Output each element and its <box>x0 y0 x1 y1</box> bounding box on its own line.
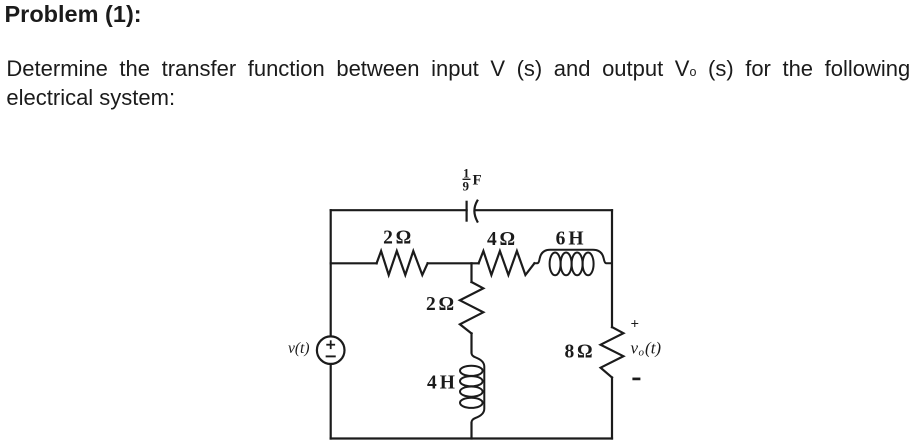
svg-text:4Ω: 4Ω <box>487 229 515 250</box>
wire: top side, capacitor to top-right corner <box>475 209 612 211</box>
wire: bottom side, bottom-left to bottom-right corner <box>331 437 612 439</box>
label: capacitor value 1/9 F <box>463 166 482 194</box>
wire: middle rail, left wire to resistor R1 <box>331 262 377 264</box>
resistor R1 2 ohm (horizontal zigzag) <box>377 251 428 275</box>
capacitor C1 (1/9 F): flat left plate <box>466 202 468 221</box>
resistor R3 2 ohm (vertical zigzag, middle branch) <box>460 282 483 333</box>
inductor L2 4 H (vertical coil) <box>460 353 484 423</box>
svg-text:9: 9 <box>463 179 470 194</box>
svg-text:vo(t): vo(t) <box>631 339 662 359</box>
svg-text:6H: 6H <box>556 229 584 250</box>
voltage source V1 v(t): circle with plus and minus <box>317 336 345 364</box>
inductor L1 6 H (horizontal coil) <box>534 250 612 276</box>
wire: middle branch, L2 to bottom rail <box>470 423 472 439</box>
svg-text:2Ω: 2Ω <box>426 294 454 315</box>
svg-text:2Ω: 2Ω <box>383 227 411 248</box>
svg-text:F: F <box>473 173 482 189</box>
wire: right vertical, R4 down to bottom-right corner <box>611 378 613 439</box>
svg-text:4H: 4H <box>427 372 455 393</box>
capacitor C1 (1/9 F): curved right plate <box>474 201 477 222</box>
node B: junction of middle rail and middle branch <box>470 263 472 282</box>
label: output minus polarity mark <box>632 378 640 381</box>
wire: top side, top-left corner to capacitor left plate <box>331 209 467 211</box>
wire: left vertical, source down to bottom-left corner <box>330 364 332 439</box>
resistor R4 8 ohm (vertical zigzag, output load) <box>601 327 624 377</box>
wire: middle branch, R3 to inductor L2 <box>470 333 472 352</box>
svg-text:v(t): v(t) <box>288 340 310 357</box>
resistor R2 4 ohm (horizontal zigzag) <box>479 251 535 275</box>
svg-text:8Ω: 8Ω <box>564 341 592 362</box>
wire: right vertical, top-right corner down to resistor R4 <box>611 210 613 327</box>
wire: middle rail, R1 to node B and resistor R2 <box>428 262 479 264</box>
wire: left vertical, top-left corner down to source <box>330 210 332 336</box>
svg-text:+: + <box>631 317 640 333</box>
